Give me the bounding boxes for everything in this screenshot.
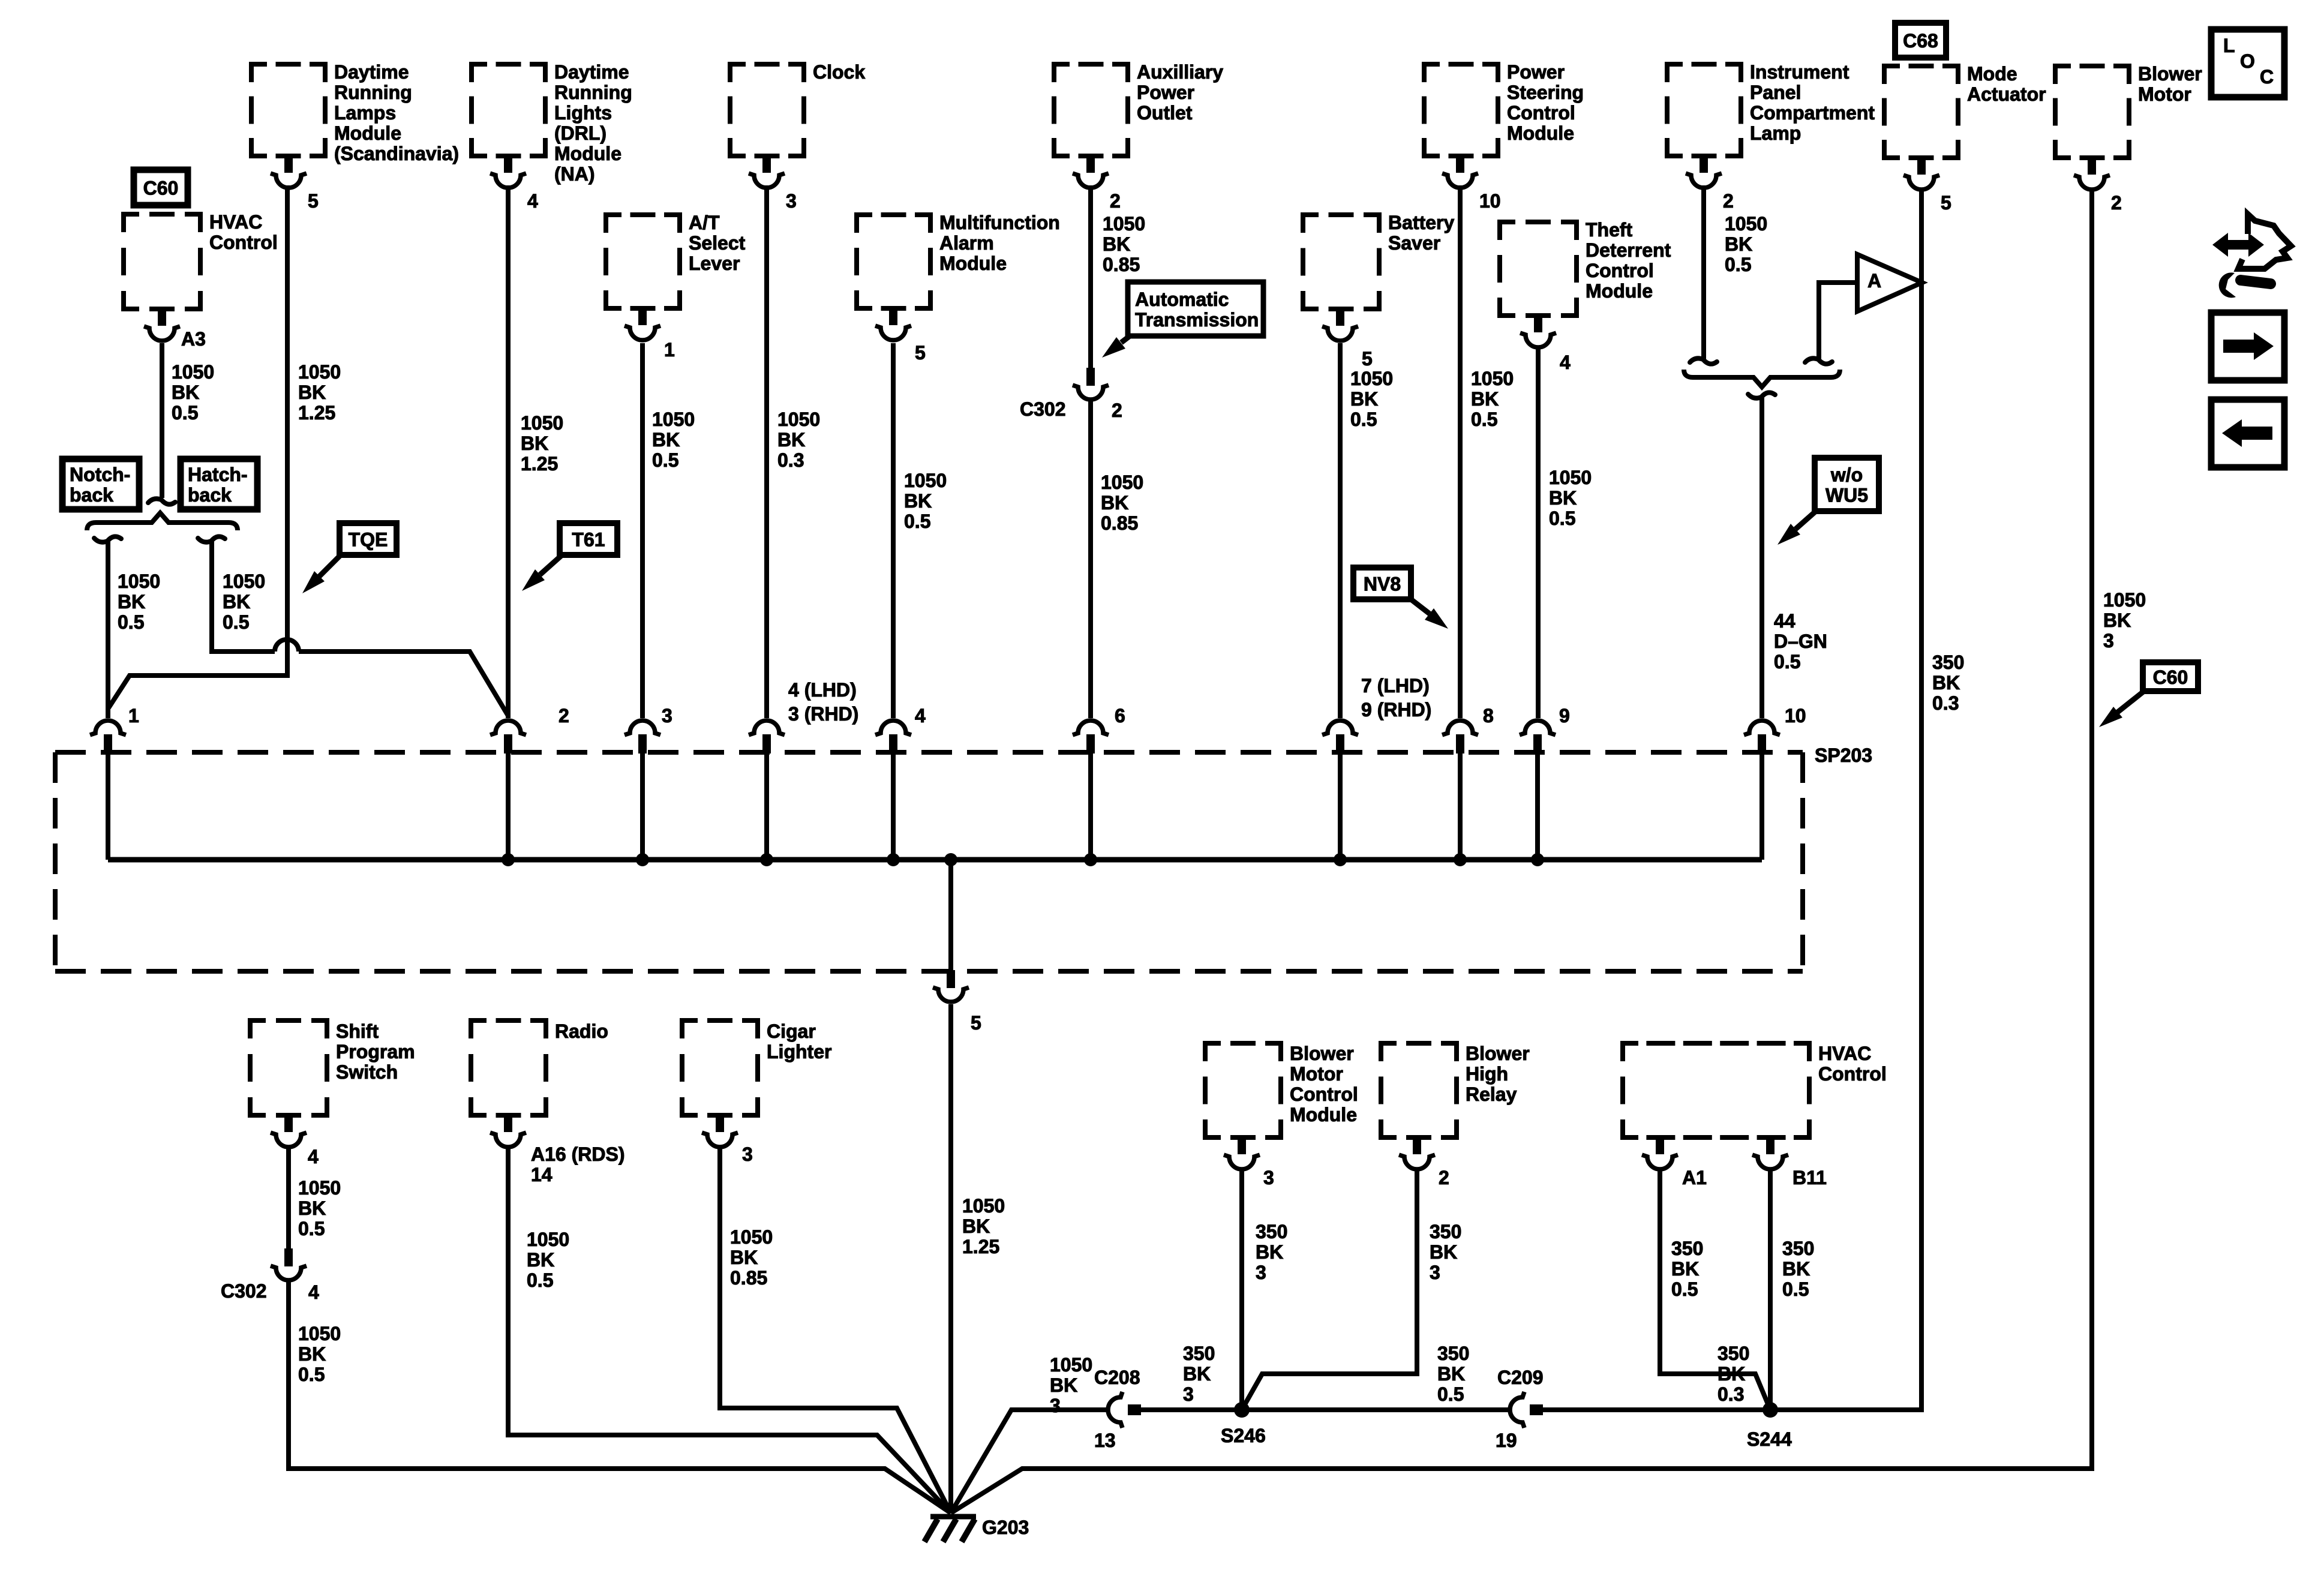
svg-text:13: 13	[1094, 1430, 1116, 1451]
SP203 internal wire at x=1489	[891, 752, 896, 860]
wire A/T Select Lever to SP203	[640, 343, 645, 718]
pin A3 connector of HVAC Control	[158, 308, 166, 326]
SP203 internal wire at x=2563	[1535, 752, 1540, 860]
svg-text:5: 5	[971, 1012, 981, 1034]
svg-text:10: 10	[1479, 190, 1501, 212]
pin 5 connector of Multifunction Alarm Module	[889, 307, 897, 325]
pin 10 connector of Power Steering Control Module	[1456, 155, 1464, 173]
svg-text:Clock: Clock	[813, 61, 865, 83]
wire break hook (Notch-back branch start)	[94, 536, 121, 542]
wire break hook (A3 end)	[148, 499, 175, 504]
SP203 pin connector at x=1071	[624, 721, 660, 735]
wire C208 to S246	[1141, 1407, 1242, 1412]
wire HVAC A1 to S244	[1660, 1171, 1770, 1410]
wire S246 to C209	[1242, 1407, 1510, 1412]
wire Shift Program Switch upper	[286, 1147, 291, 1248]
svg-text:2: 2	[2111, 192, 2122, 214]
module Daytime Running Lamps Module (Scandinavia)	[251, 64, 325, 156]
svg-text:C: C	[2260, 66, 2274, 88]
module Cigar Lighter	[682, 1020, 758, 1115]
wire Hatch-back branch (crossover) to SP203 pin 2	[212, 542, 275, 652]
module Theft Deterrent Control Module	[1500, 222, 1577, 316]
module Shift Program Switch	[250, 1020, 327, 1115]
pin A1 connector of HVAC Control	[1656, 1136, 1664, 1154]
inline connector C302 (pin 2)	[1086, 368, 1095, 386]
splice pack SP203 dashed box	[55, 750, 1803, 755]
module Multifunction Alarm Module	[857, 215, 930, 308]
wire Shift Program Switch lower to ground	[289, 1281, 951, 1513]
wire Blower Motor Control Module to S246	[1239, 1171, 1244, 1410]
svg-text:8: 8	[1483, 705, 1494, 727]
SP203 internal wire at x=2234	[1338, 752, 1343, 860]
svg-text:6: 6	[1115, 705, 1125, 727]
wire Battery Saver to SP203	[1338, 343, 1343, 718]
SP203 pin connector at x=2563	[1520, 721, 1556, 735]
svg-text:3: 3	[1263, 1167, 1274, 1188]
arrow from TQE	[319, 555, 341, 577]
svg-text:O: O	[2240, 50, 2255, 72]
svg-text:T61: T61	[572, 529, 605, 551]
module Radio	[471, 1020, 546, 1115]
svg-text:2: 2	[1439, 1167, 1449, 1188]
module Mode Actuator	[1884, 66, 1958, 158]
label box C60 (right)	[2143, 662, 2198, 691]
svg-text:19: 19	[1496, 1430, 1517, 1451]
icon wrench and arrows	[2220, 240, 2257, 250]
SP203 pin connector at x=1818	[1073, 721, 1109, 735]
SP203 pin connector at x=180	[90, 721, 126, 735]
wire merged (44 D-GN) to SP203 pin 10	[1759, 398, 1764, 718]
svg-text:2: 2	[559, 705, 569, 727]
svg-text:A3: A3	[181, 328, 206, 350]
wire Mode Actuator to S244	[1770, 189, 1921, 1410]
svg-text:5: 5	[308, 190, 319, 212]
pin 5 connector of Daytime Running Lamps Module (Scandinavia)	[284, 155, 293, 173]
svg-text:3 (RHD): 3 (RHD)	[788, 703, 858, 725]
wire break hook (reference A wire end)	[1805, 358, 1832, 364]
wire DRL Module to SP203 pin 2	[506, 185, 511, 718]
wire Auxilliary Power Outlet lower	[1088, 401, 1093, 718]
svg-text:4: 4	[308, 1281, 319, 1303]
pin 3 connector of Clock	[762, 155, 771, 173]
pin B11 connector of HVAC Control	[1766, 1136, 1774, 1154]
junction dot on SP203 bus at x=2563	[1531, 853, 1544, 866]
svg-text:C208: C208	[1094, 1367, 1140, 1388]
SP203 internal wire at x=1818	[1088, 752, 1093, 860]
svg-text:7 (LHD): 7 (LHD)	[1361, 675, 1430, 697]
SP203 internal wire to pin 5 exit	[948, 860, 953, 970]
splice S244	[1762, 1402, 1778, 1418]
svg-text:C60: C60	[2153, 667, 2188, 688]
inline connector C302 (pin 4)	[284, 1248, 293, 1266]
svg-text:9 (RHD): 9 (RHD)	[1361, 699, 1431, 721]
SP203 pin connector at x=2234	[1322, 721, 1358, 735]
pin 2 connector of Blower High Relay	[1413, 1136, 1421, 1154]
wire Cigar Lighter to ground	[720, 1147, 951, 1513]
svg-text:TQE: TQE	[349, 529, 388, 551]
wire ground to C208	[951, 1410, 1108, 1513]
pin 2 connector of Blower Motor	[2088, 157, 2096, 175]
pin 3 connector of Cigar Lighter	[716, 1114, 724, 1132]
SP203 pin connector at x=2434	[1442, 721, 1478, 735]
svg-text:5: 5	[915, 342, 926, 364]
SP203 pin connector at x=1489	[875, 721, 911, 735]
arrow from C60 (right)	[2118, 691, 2144, 712]
svg-text:2: 2	[1110, 190, 1121, 212]
junction dot on SP203 bus at x=1278	[760, 853, 773, 866]
wire Blower Motor to ground bus	[951, 189, 2092, 1513]
svg-text:C60: C60	[143, 178, 179, 199]
legend box right arrow	[2211, 313, 2284, 380]
svg-text:S246: S246	[1221, 1425, 1266, 1446]
module HVAC Control (bottom)	[1623, 1043, 1809, 1137]
module Blower Motor	[2055, 66, 2129, 158]
SP203 internal wire at x=180	[106, 752, 110, 860]
module Blower High Relay	[1381, 1043, 1457, 1137]
svg-text:3: 3	[662, 705, 672, 727]
wire Daytime Running Lamps to SP203 pin 1	[109, 185, 287, 708]
splice S246	[1234, 1402, 1250, 1418]
svg-text:4: 4	[915, 705, 926, 727]
svg-text:BlowerMotorControlModule: BlowerMotorControlModule	[1290, 1043, 1358, 1125]
SP203 pin connector at x=847	[490, 721, 526, 735]
SP203 pin 5 exit connector	[947, 970, 955, 988]
svg-text:9: 9	[1559, 705, 1570, 727]
brace merge (Instrument Panel Lamp / A into w/o WU5 wire)	[1684, 370, 1840, 387]
wire break hook (merged wire start)	[1748, 392, 1775, 398]
wire SP203 pin 5 to ground G203	[948, 1004, 953, 1513]
ground G203 symbol	[930, 1514, 976, 1520]
module Instrument Panel Compartment Lamp	[1667, 64, 1741, 156]
module A/T Select Lever	[606, 215, 680, 308]
svg-text:C209: C209	[1497, 1367, 1544, 1388]
SP203 internal wire at x=1071	[640, 752, 645, 860]
wire Clock to SP203	[764, 185, 769, 718]
svg-text:S244: S244	[1747, 1428, 1792, 1450]
wire break hook (Instrument Panel Lamp end)	[1690, 358, 1717, 364]
pin 5 connector of Battery Saver	[1336, 308, 1344, 326]
wire crossover hump	[275, 640, 299, 652]
label box Notch-back	[62, 459, 139, 509]
svg-text:G203: G203	[982, 1517, 1029, 1538]
wire from reference A	[1819, 283, 1857, 359]
svg-text:NV8: NV8	[1364, 574, 1401, 595]
arrow from NV8	[1411, 599, 1430, 614]
svg-text:A1: A1	[1682, 1167, 1707, 1188]
brace fork (A3 to Notch-back/Hatch-back branches)	[87, 513, 238, 530]
svg-text:2: 2	[1112, 400, 1122, 421]
arrow from w/o WU5	[1795, 511, 1816, 529]
label box T61	[560, 523, 617, 555]
svg-text:3: 3	[786, 190, 797, 212]
off-page reference triangle A	[1857, 254, 1922, 311]
svg-text:4: 4	[527, 190, 538, 212]
pin A16 connector of Radio	[504, 1114, 512, 1132]
svg-text:3: 3	[742, 1143, 753, 1165]
label box TQE	[340, 523, 397, 555]
legend box left arrow	[2211, 400, 2284, 467]
SP203 internal wire at x=847	[506, 752, 511, 860]
pin 5 connector of Mode Actuator	[1917, 157, 1926, 175]
wire Hatch-back branch continued	[299, 652, 508, 716]
pin 2 connector of Auxilliary Power Outlet	[1086, 155, 1095, 173]
SP203 pin connector at x=1278	[749, 721, 785, 735]
label box w/o WU5	[1815, 458, 1879, 511]
arrow from Automatic Transmission	[1121, 337, 1129, 343]
svg-text:4 (LHD): 4 (LHD)	[788, 679, 857, 701]
arrow from T61	[540, 555, 562, 575]
svg-text:C68: C68	[1903, 30, 1938, 52]
svg-text:5: 5	[1941, 192, 1951, 214]
pin 4 connector of Daytime Running Lights (DRL) Module (NA)	[504, 155, 512, 173]
label box Hatch-back	[181, 459, 257, 509]
svg-text:2: 2	[1723, 190, 1734, 212]
pin 4 connector of Theft Deterrent Control Module	[1534, 314, 1542, 332]
wire Blower High Relay to S246	[1242, 1171, 1417, 1410]
module Auxilliary Power Outlet	[1054, 64, 1128, 156]
wire C209 to S244	[1543, 1407, 1770, 1412]
svg-text:A: A	[1867, 270, 1881, 292]
svg-text:5: 5	[1362, 348, 1373, 370]
module HVAC Control (upper left)	[124, 214, 200, 309]
wire A3 from HVAC Control	[160, 343, 164, 498]
svg-text:SP203: SP203	[1815, 745, 1872, 766]
pin 1 connector of A/T Select Lever	[638, 307, 647, 325]
label box C68	[1895, 23, 1946, 58]
pin 3 connector of Blower Motor Control Module	[1238, 1136, 1246, 1154]
inline connector C208	[1108, 1392, 1122, 1428]
svg-text:C302: C302	[1020, 398, 1066, 420]
label box Automatic Transmission	[1128, 282, 1263, 336]
wire Theft Deterrent Control Module to SP203	[1536, 349, 1541, 718]
svg-text:1: 1	[128, 705, 139, 727]
SP203 internal wire at x=2434	[1458, 752, 1463, 860]
wire break hook (Hatch-back branch start)	[198, 536, 225, 542]
wire Multifunction Alarm Module to SP203	[891, 343, 896, 718]
wire Auxilliary Power Outlet upper	[1088, 185, 1093, 368]
junction dot on SP203 bus at x=1585	[944, 853, 957, 866]
module Clock	[730, 64, 804, 156]
SP203 internal wire at x=2937	[1759, 752, 1764, 860]
label box NV8	[1353, 568, 1411, 599]
svg-text:Radio: Radio	[555, 1020, 608, 1042]
svg-text:C302: C302	[221, 1280, 267, 1302]
pin 2 connector of Instrument Panel Compartment Lamp	[1700, 155, 1708, 173]
junction dot on SP203 bus at x=847	[502, 853, 515, 866]
svg-text:1: 1	[664, 339, 675, 361]
junction dot on SP203 bus at x=2234	[1334, 853, 1347, 866]
wire Instrument Panel Compartment Lamp	[1701, 185, 1706, 359]
svg-text:10: 10	[1785, 705, 1806, 727]
svg-text:L: L	[2223, 35, 2235, 56]
junction dot on SP203 bus at x=1071	[636, 853, 649, 866]
module Daytime Running Lights (DRL) Module (NA)	[472, 64, 545, 156]
junction dot on SP203 bus at x=2434	[1454, 853, 1467, 866]
label box C60	[134, 170, 188, 205]
junction dot on SP203 bus at x=1818	[1084, 853, 1097, 866]
module Battery Saver	[1303, 215, 1379, 309]
svg-text:4: 4	[308, 1146, 319, 1167]
wire Power Steering Control Module to SP203	[1458, 185, 1463, 718]
SP203 internal wire at x=1278	[764, 752, 769, 860]
module Power Steering Control Module	[1424, 64, 1498, 156]
SP203 internal bus	[108, 857, 1762, 863]
svg-text:4: 4	[1560, 352, 1571, 373]
wire HVAC B11 to S244	[1768, 1171, 1773, 1410]
svg-text:B11: B11	[1792, 1167, 1827, 1188]
wire Radio to ground	[508, 1147, 951, 1513]
SP203 pin connector at x=2937	[1744, 721, 1780, 735]
pin 4 connector of Shift Program Switch	[284, 1114, 293, 1132]
svg-text:w/oWU5: w/oWU5	[1825, 464, 1868, 506]
wire Notch-back branch to SP203 pin 1	[106, 542, 110, 718]
module Blower Motor Control Module	[1205, 1043, 1281, 1137]
junction dot on SP203 bus at x=1489	[887, 853, 900, 866]
legend box LOC	[2211, 29, 2284, 97]
inline connector C209	[1510, 1392, 1524, 1428]
